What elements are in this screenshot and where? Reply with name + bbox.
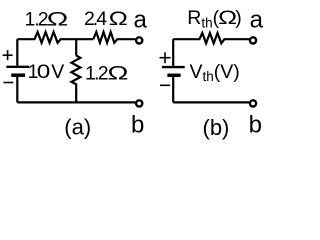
svg-text:): ) [235, 7, 242, 29]
svg-text:(b): (b) [203, 115, 230, 140]
wire: battery V1 bottom stem [16, 77, 18, 103]
terminal b (right circuit) open circle [250, 100, 256, 106]
svg-text:Ω: Ω [109, 7, 128, 29]
svg-text:V: V [51, 61, 64, 83]
svg-text:Ω: Ω [47, 9, 69, 30]
minus sign of V1 [4, 82, 14, 84]
battery V1 10V plates [3, 50, 30, 82]
svg-text:b: b [249, 112, 262, 139]
terminal a (right circuit) open circle [250, 37, 256, 43]
battery Vth plates [160, 52, 185, 85]
svg-text:2.4: 2.4 [84, 8, 107, 30]
svg-text:Vth(V): Vth(V) [190, 61, 240, 84]
battery Vth negative plate [167, 74, 180, 78]
resistor R1 1.2ohm (horizontal, top-left) [17, 32, 93, 43]
resistor R2 2.4ohm (horizontal, top-middle) [93, 32, 135, 43]
svg-text:a: a [134, 7, 148, 34]
wire: right circuit top rail with resistor Rth [173, 33, 249, 102]
node: junction of R1/R2 and R3, vertical drop [75, 39, 77, 55]
resistor R3 1.2ohm (vertical) [71, 56, 80, 103]
wire left vertical top [16, 39, 18, 65]
svg-text:a: a [250, 7, 264, 34]
battery V1 negative plate [11, 73, 25, 77]
svg-text:b: b [131, 112, 144, 139]
wire: battery Vth bottom stem [172, 77, 174, 102]
svg-text:1.2: 1.2 [25, 9, 49, 31]
terminal b (left circuit) open circle [136, 100, 142, 106]
svg-text:0: 0 [37, 60, 51, 82]
wire right circuit left vertical top [172, 39, 174, 66]
battery Vth positive plate [162, 66, 185, 68]
resistor Rth (horizontal) [173, 33, 249, 43]
terminal a (left circuit) open circle [136, 37, 142, 43]
minus sign of Vth [160, 84, 170, 86]
wire: left circuit bottom rail [17, 101, 135, 103]
svg-text:1.2: 1.2 [85, 63, 109, 85]
plus sign of Vth [160, 57, 171, 59]
battery V1 positive plate [6, 66, 29, 68]
svg-text:Ω: Ω [107, 63, 128, 85]
wire: right circuit bottom rail [173, 101, 249, 103]
wire: left circuit top rail with resistors R1 and R2 [17, 32, 135, 102]
svg-text:(a): (a) [64, 114, 91, 139]
plus sign of V1 [3, 54, 13, 56]
